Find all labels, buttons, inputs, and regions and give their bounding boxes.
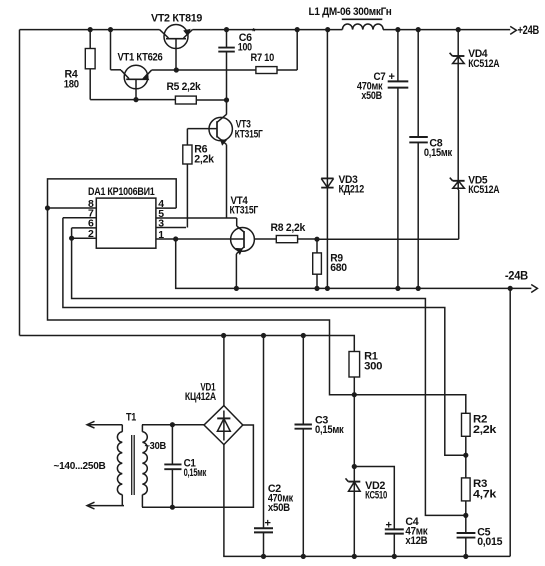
label VD4 KS512A: [468, 48, 499, 70]
value label C4 + 47mk x12V: [386, 516, 429, 547]
node -24V output arrow: [505, 271, 538, 293]
wire: VT1 emitter to VT2 base junction: [152, 69, 177, 71]
zener diode VD4: [450, 53, 465, 64]
svg-text:3: 3: [158, 217, 164, 229]
capacitor C4: [385, 529, 404, 556]
junction: pin 6/2 node: [69, 236, 74, 241]
svg-text:1: 1: [158, 229, 164, 241]
label VT3 KT315G: [235, 119, 264, 141]
wire: left outer vertical rail: [19, 30, 21, 336]
wire: secondary bottom to bridge: [142, 425, 253, 507]
junction: VD2 top node: [352, 464, 357, 469]
junction: R9 / -24V rail: [314, 286, 319, 291]
diode VD3: [321, 30, 333, 289]
capacitor C5: [457, 533, 476, 556]
capacitor C7: [388, 30, 409, 289]
wire: VT4 collector riser: [236, 218, 238, 226]
value label R2 2,2k: [473, 414, 497, 437]
svg-text:х12В: х12В: [405, 535, 427, 547]
diode bridge VD1: [204, 406, 243, 445]
svg-text:+: +: [386, 520, 392, 532]
node: mains input arrow upper: [87, 421, 122, 428]
wire: pin6/2 loop (down-right to R3/C5 node): [72, 228, 466, 516]
wire: bridge bottom output to bottom rail: [223, 445, 225, 557]
wire: R3 to C5: [465, 501, 467, 533]
junction: C8 / top rail: [416, 27, 421, 32]
transistor VT4: [231, 226, 255, 254]
junction: VT2 base node: [174, 67, 179, 72]
svg-text:+24В: +24В: [518, 25, 540, 37]
junction: R1 bottom / R2 row: [352, 392, 357, 397]
pin number 1: [158, 229, 164, 241]
svg-text:R5 2,2k: R5 2,2k: [167, 81, 202, 93]
transistor VT2: [160, 25, 193, 71]
junction: R2/R3 node: [463, 453, 468, 458]
junction: C1 bottom: [170, 505, 175, 510]
svg-text:Т1: Т1: [126, 412, 136, 424]
svg-text:КТ315Г: КТ315Г: [235, 129, 264, 141]
resistor R5: [175, 96, 226, 104]
label VT2 KT819: [151, 13, 202, 25]
wire: pin1 node down to -24V rail: [176, 239, 511, 288]
svg-text:+: +: [265, 518, 271, 530]
svg-text:680: 680: [330, 262, 347, 274]
label L1 DM-06 300uH: [309, 6, 392, 18]
wire: +24V top rail mid segment (VT2 to L1): [193, 29, 343, 31]
wire: +24V top rail right segment (L1 to arrow): [383, 29, 510, 31]
wire: VD2 node to C4: [354, 467, 394, 530]
label VT4 KT315G: [230, 195, 259, 217]
svg-text:КС512А: КС512А: [468, 184, 499, 196]
resistor R3: [462, 478, 471, 501]
value label C2 470mk x50V: [265, 483, 294, 530]
wire: VT4 emitter to -24V rail: [235, 254, 237, 289]
svg-text:КС510: КС510: [365, 490, 387, 502]
value label C7 470mk x50V: [357, 71, 395, 102]
label DA1 KR1006VI1: [88, 186, 155, 198]
value label R4 180: [64, 69, 79, 91]
svg-text:КЦ412А: КЦ412А: [185, 391, 216, 403]
pin 7 wire: [63, 217, 96, 219]
label VT1 KT626: [118, 52, 163, 64]
wire: outer loop (left rail to R1 top): [20, 336, 355, 352]
transistor VT1: [121, 65, 152, 99]
resistor R4: [85, 30, 95, 100]
svg-text:R8 2,2k: R8 2,2k: [271, 222, 307, 234]
junction: R4 / top rail: [88, 27, 93, 32]
value label R5 2,2k: [167, 81, 202, 93]
junction: R8 / R9 / VD5 node: [314, 237, 319, 242]
wire: pin8-pin4 top loop: [48, 179, 177, 208]
op-amp U DA1 KR1006VI1 body: [96, 198, 156, 248]
capacitor C3: [295, 336, 312, 557]
pin 6 wire: [72, 227, 97, 229]
zener diode VD2: [346, 467, 361, 557]
svg-text:2: 2: [88, 228, 94, 240]
junction: R5 / C6 / VT3 collector node: [224, 97, 229, 102]
value label C3 0,15mk: [315, 415, 344, 437]
label VD2 KS510: [365, 480, 387, 502]
junction: C3 / bottom rail: [301, 554, 306, 559]
wire: VD4/VD5 branch: [457, 30, 459, 190]
resistor R6: [183, 129, 192, 228]
wire: R4 bottom to VT1 base to R5: [90, 99, 175, 101]
junction: R7 / top rail: [295, 27, 300, 32]
junction: pin 8 node: [45, 205, 50, 210]
svg-text:VT2 КТ819: VT2 КТ819: [151, 13, 202, 25]
value label C8 0,15mk: [424, 138, 453, 160]
value label R3 4,7k: [473, 478, 497, 501]
capacitor C6: [218, 30, 235, 100]
junction: C8 / -24V rail: [416, 286, 421, 291]
wire: VT2 base node to R7: [176, 69, 256, 71]
capacitor C8: [409, 30, 428, 289]
svg-text:L1 ДМ-06 300мкГн: L1 ДМ-06 300мкГн: [309, 6, 392, 18]
pin number 7: [88, 208, 94, 220]
junction: C2 / bottom rail: [261, 554, 266, 559]
label VD5 KS512A: [468, 175, 499, 197]
label VD1 KC412A: [185, 382, 216, 404]
pin number 3: [158, 217, 164, 229]
pin number 6: [88, 218, 94, 230]
junction: C6 / top rail: [224, 27, 229, 32]
pin 8 wire: [48, 207, 97, 209]
capacitor C1: [164, 425, 181, 508]
value label R7 10: [251, 52, 275, 64]
junction: VT4 emitter / -24V rail: [234, 286, 239, 291]
node +24V output arrow: [510, 25, 539, 37]
svg-text:КС512А: КС512А: [468, 58, 499, 70]
value label R6 2,2k: [194, 144, 215, 166]
svg-text:2,2k: 2,2k: [473, 424, 497, 436]
junction: VD2 / bottom rail: [352, 554, 357, 559]
junction: C1 top: [170, 422, 175, 427]
svg-text:~140...250В: ~140...250В: [54, 460, 107, 472]
transformer T1 primary winding: [117, 425, 122, 506]
svg-text:4,7k: 4,7k: [473, 489, 497, 501]
junction: C7 / top rail: [395, 27, 400, 32]
svg-text:-24В: -24В: [505, 271, 528, 283]
wire: bridge top output to loop line: [223, 336, 225, 406]
junction: VD3 / -24V rail: [325, 286, 330, 291]
wire: VT1 collector to top rail: [111, 30, 122, 70]
svg-text:2,2k: 2,2k: [194, 154, 215, 166]
junction: VD3 / top rail: [325, 27, 330, 32]
junction: C2 / loop line: [261, 333, 266, 338]
transistor VT3: [187, 114, 232, 144]
junction: C4 / bottom rail: [392, 554, 397, 559]
junction: VD4 / top rail: [456, 27, 461, 32]
svg-text:0,15мк: 0,15мк: [315, 424, 344, 436]
svg-text:180: 180: [64, 79, 79, 91]
pin 3 wire: [156, 227, 186, 229]
wire: secondary top to bridge: [142, 424, 204, 426]
label secondary ~30V: [145, 440, 167, 452]
junction: VT1 base node: [133, 97, 138, 102]
svg-text:~30В: ~30В: [145, 440, 167, 452]
resistor R8: [254, 236, 317, 243]
pin number 4: [158, 198, 164, 210]
pin number 5: [158, 208, 164, 220]
junction: bridge / loop line: [221, 333, 226, 338]
pin number 8: [88, 198, 94, 210]
wire: VT3 collector: [226, 100, 228, 115]
resistor R9: [313, 239, 322, 288]
node: mains input arrow lower: [87, 502, 124, 509]
svg-text:КТ315Г: КТ315Г: [230, 205, 259, 217]
label mains ~140...250V: [54, 460, 107, 472]
junction: R3/C5 node: [463, 513, 468, 518]
svg-text:х50В: х50В: [268, 502, 290, 514]
wire: bottom rail: [223, 555, 510, 557]
value label R1 300: [364, 351, 382, 373]
resistor R2: [462, 413, 471, 436]
junction: -24V rail / right-side vertical: [508, 286, 513, 291]
label T1: [126, 412, 136, 424]
svg-text:300: 300: [364, 361, 382, 373]
pin 1 wire (to VT4 base): [156, 238, 244, 240]
svg-text:х50В: х50В: [361, 90, 382, 102]
wire: +24V top rail left segment: [20, 29, 160, 31]
pin 5 wire: [156, 217, 237, 219]
svg-text:+: +: [389, 71, 395, 83]
label VD3 KD212: [339, 174, 365, 196]
value label R8 2,2k: [271, 222, 307, 234]
svg-text:0,015: 0,015: [477, 536, 502, 548]
svg-text:0,15мк: 0,15мк: [184, 467, 207, 479]
value label C6 100: [238, 27, 256, 54]
zener diode VD5: [450, 178, 465, 189]
capacitor C2: [254, 336, 273, 557]
pin 4 wire: [156, 207, 176, 209]
wire: pin7 loop (down-right to R2/R3 node): [63, 218, 466, 455]
value label R9 680: [330, 253, 347, 275]
resistor R1: [349, 352, 360, 395]
transformer T1 secondary winding: [142, 425, 147, 508]
wire: R2 to R3: [465, 436, 467, 478]
wire: right-side vertical to bottom rail: [509, 288, 511, 556]
wire: pin8 loop (down-right to R1/R2 row): [48, 208, 466, 413]
svg-text:КД212: КД212: [339, 184, 365, 196]
pin 2 wire: [72, 237, 97, 239]
svg-text:R7 10: R7 10: [251, 52, 275, 64]
wire: R1/VD2/C4 node: [353, 395, 355, 467]
pin number 2: [88, 228, 94, 240]
junction: C3 / loop line: [301, 333, 306, 338]
inductor L1: [342, 19, 383, 29]
value label C5 0,015: [477, 527, 502, 549]
wire: VT3 emitter down to pin5 row: [226, 145, 228, 218]
svg-text:DA1 КР1006ВИ1: DA1 КР1006ВИ1: [88, 186, 155, 198]
wire: R8 node to VD5: [317, 190, 459, 239]
value label C1 0,15mk: [184, 458, 207, 480]
svg-text:VT1 КТ626: VT1 КТ626: [118, 52, 163, 64]
junction: C7 / -24V rail: [395, 286, 400, 291]
transformer T1 core: [132, 435, 135, 495]
junction: pin 1 node: [173, 236, 178, 241]
junction: C5 / bottom rail: [463, 554, 468, 559]
resistor R7: [256, 30, 297, 74]
junction: VT1 collector / top rail: [108, 27, 113, 32]
svg-text:0,15мк: 0,15мк: [424, 147, 453, 159]
